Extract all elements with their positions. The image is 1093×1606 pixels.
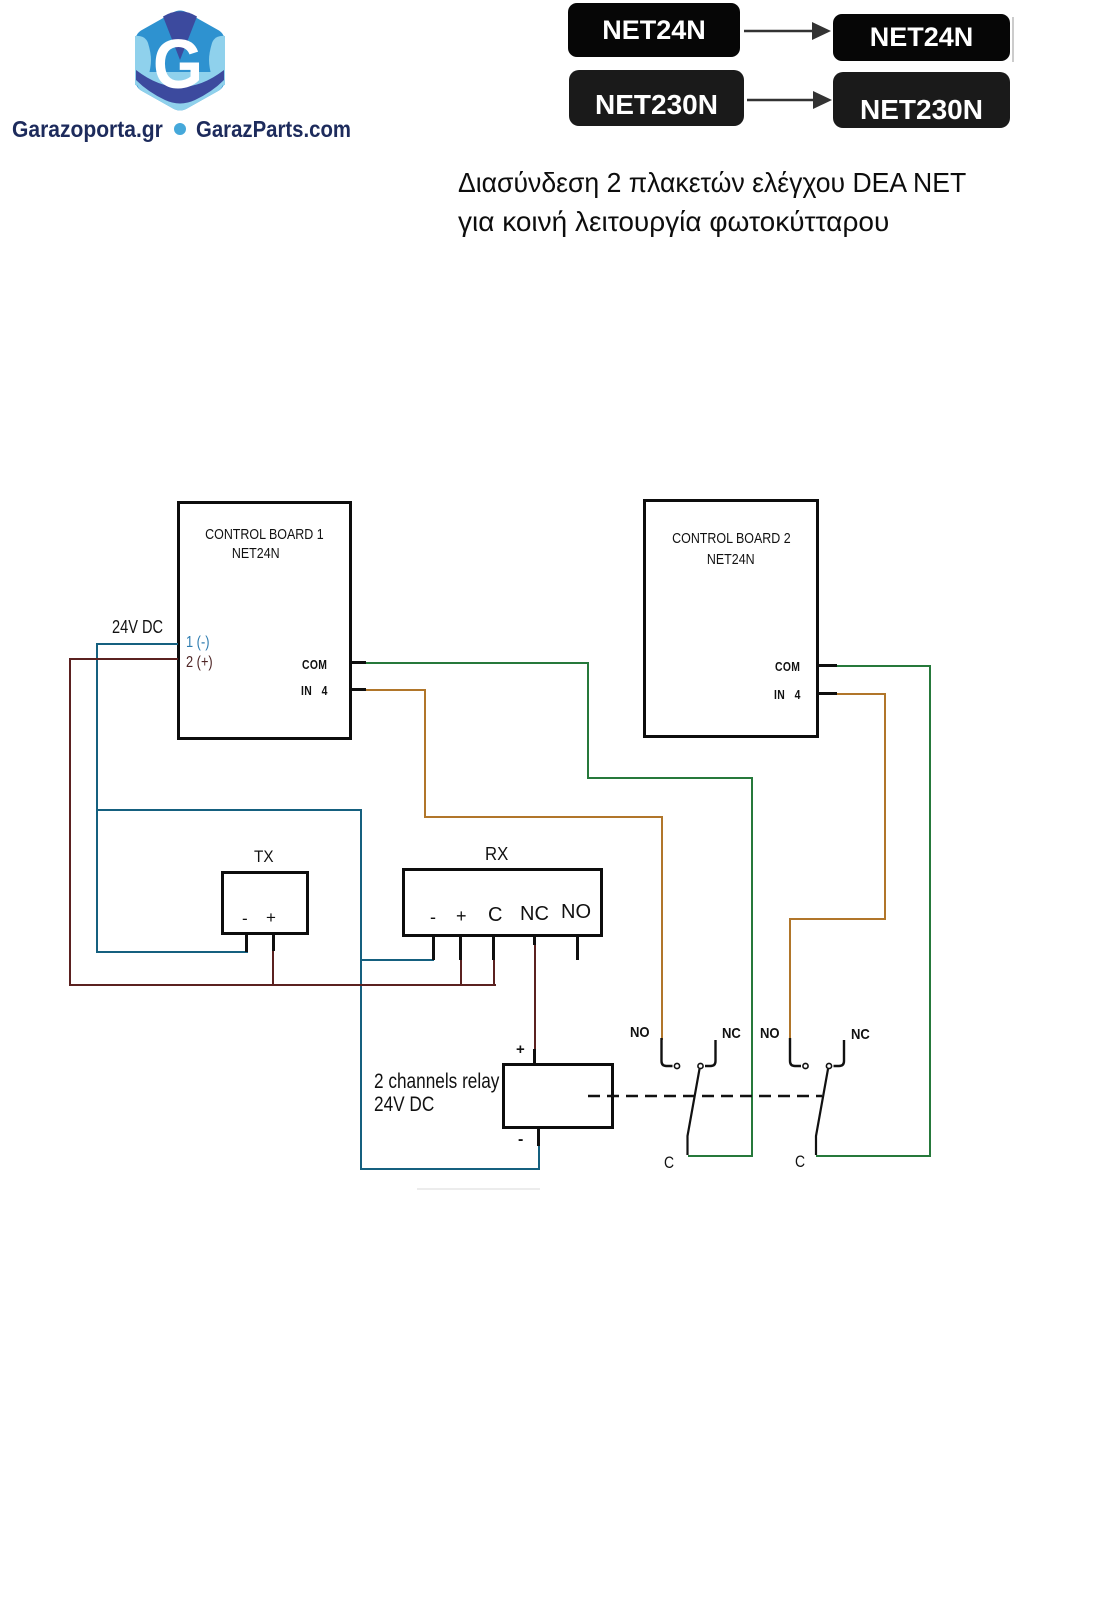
pin label 2 (+) [186,654,219,672]
wire green step horizontal [587,777,753,779]
wire orange switch1 NO vertical [661,816,663,1040]
wire teal mid vertical [360,809,362,1170]
stub TX plus [272,935,275,951]
wire green switch2 vertical [929,665,931,1157]
logo hexagon G [134,10,226,111]
stub COM2 [817,664,837,667]
wire green mid vertical [587,662,589,779]
wire orange vertical 2 [884,693,886,920]
wire orange vertical 1 [424,689,426,818]
switch2 NO terminal [790,1038,808,1069]
wire maroon left vertical [69,658,71,985]
badge NET24N left [568,3,740,57]
pin label 1 (-) [186,634,215,652]
RX plus label [456,906,467,927]
switch2 NC terminal [826,1040,844,1069]
stub RX NC [533,937,536,945]
label COM board2 [775,659,807,674]
control board 2 NET24N [646,551,816,568]
label COM board1 [302,657,334,672]
arrow 2 [743,87,838,115]
control board 2 title [646,530,816,547]
wire maroon TX plus vertical [272,950,274,986]
wire maroon RX C vertical [493,960,495,986]
badge NET230N right [833,72,1010,128]
wire maroon 2(+) horizontal [70,658,178,660]
stub IN4-1 [352,688,366,691]
label 2 channels relay [374,1070,527,1094]
wire teal 1(-) horizontal [97,643,178,645]
brand text GarazParts.com [196,116,371,143]
wire maroon bottom horizontal [69,984,496,986]
stub relay plus [533,1049,536,1063]
label 24V DC relay [374,1093,448,1117]
wire green switch1 C horizontal [688,1155,753,1157]
relay plus label [516,1041,525,1058]
label IN 4 board1 [301,683,334,698]
stub RX NO [576,937,579,960]
wire green switch1 vertical [751,777,753,1157]
control board 2 box [643,499,819,738]
wire green COM1 horizontal [366,662,589,664]
TX box [221,871,309,935]
wire teal to RX minus [360,959,434,961]
badge NET230N left [569,70,744,126]
shadow line right of badge [1012,17,1014,62]
greek caption line2 [458,206,889,238]
control board 1 title [180,526,349,543]
TX plus label [266,908,276,928]
wire green COM2 horizontal [837,665,931,667]
label RX [485,844,510,865]
relay minus label [518,1131,523,1149]
switch2 lever [816,1069,828,1155]
label NC switch2 [851,1026,873,1043]
wire maroon RX NC to relay [534,944,536,1050]
wire orange switch2 NO vertical [789,918,791,1040]
greek caption [458,167,993,199]
relay box [502,1063,614,1129]
faint erased line [417,1188,540,1190]
RX NC label [520,903,549,926]
wire teal left vertical [96,643,98,952]
wire green switch2 C horizontal [816,1155,931,1157]
control board 1 box [177,501,352,740]
stub COM1 [352,661,366,664]
wire teal relay minus vertical [538,1146,540,1170]
switch1 NO terminal [662,1038,680,1069]
wire orange step horizontal 1 [424,816,663,818]
brand text Garazoporta.gr [12,116,177,143]
label NO switch1 [630,1024,653,1041]
label 24V DC [112,617,175,638]
label TX [254,847,276,867]
brand dot [174,123,186,135]
arrow 1 [740,18,835,46]
dashed actuator line [588,1095,822,1098]
badge NET24N right [833,14,1010,61]
wire orange IN4-1 horizontal [366,689,426,691]
wire orange IN4-2 horizontal [837,693,886,695]
RX box [402,868,603,937]
wire maroon RX plus vertical [460,960,462,986]
RX minus label [430,907,436,928]
wire teal to TX minus [96,951,248,953]
stub IN4-2 [817,692,837,695]
stub RX plus [459,937,462,960]
stub RX C [492,937,495,960]
label IN 4 board2 [774,687,807,702]
label C switch2 [795,1152,807,1172]
switch1 NC terminal [698,1040,716,1069]
switch1 lever [688,1069,700,1155]
TX minus label [242,909,248,929]
wire teal bottom horizontal [360,1168,540,1170]
label NO switch2 [760,1025,783,1042]
wire teal branch horizontal [96,809,362,811]
RX C label [488,904,502,927]
label NC switch1 [722,1025,744,1042]
RX NO label [561,901,591,924]
label C switch1 [664,1153,676,1173]
stub relay minus [537,1129,540,1146]
stub TX minus [245,935,248,952]
wire orange step horizontal 2 [790,918,886,920]
control board 1 NET24N [171,545,340,562]
stub RX minus [432,937,435,960]
